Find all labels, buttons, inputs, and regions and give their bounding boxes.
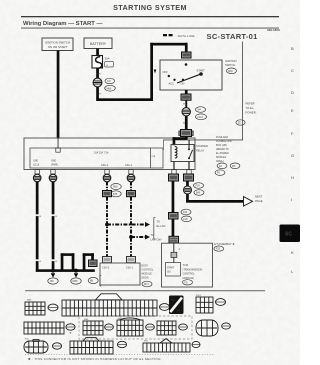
ground label G3 — [88, 277, 98, 283]
svg-text:B: B — [291, 46, 294, 51]
wire label B gaps upper — [35, 214, 39, 216]
arrow next page — [244, 197, 253, 207]
pin connector inside — [171, 252, 177, 257]
svg-text:I: I — [291, 197, 292, 202]
pin box c3g-1 — [129, 170, 133, 174]
ignition switch on-or-start box — [42, 38, 73, 51]
connector label F101 — [196, 114, 207, 120]
wire bump 1 top — [61, 253, 75, 256]
ground label G1 — [48, 278, 58, 284]
svg-text:C: C — [291, 68, 294, 73]
switch lever — [177, 74, 201, 83]
connector label E5 — [236, 120, 245, 125]
svg-text:✱ : THIS CONNECTOR IS NOT SHOW: ✱ : THIS CONNECTOR IS NOT SHOWN IN HARNE… — [28, 357, 162, 361]
svg-text:F25: F25 — [184, 218, 189, 221]
connector label M30 — [227, 68, 237, 74]
terminal c3g-1 — [127, 174, 135, 182]
svg-text:SWITCH: SWITCH — [225, 63, 235, 67]
wire fuse to terminal — [96, 68, 99, 79]
label fuse ref — [105, 62, 114, 68]
connector at ignition switch — [182, 52, 192, 58]
wire bump 1 left leg — [61, 253, 64, 271]
svg-text:(REFER TO: (REFER TO — [216, 148, 229, 151]
connector below switch — [181, 94, 191, 100]
fuse 30A — [92, 56, 103, 69]
svg-text:G: G — [291, 153, 294, 158]
svg-text:(TRANSMISSION: (TRANSMISSION — [183, 268, 203, 271]
data connector 1 — [103, 191, 112, 197]
starter relay box — [171, 145, 194, 162]
terminal gnd clu — [33, 174, 41, 182]
connector face F1 round — [196, 320, 218, 336]
wire inside tcm — [173, 243, 174, 262]
junction dot data 2 — [129, 235, 133, 239]
data line 1 — [106, 197, 108, 257]
data connector 2 — [127, 191, 136, 197]
connector label M5 — [230, 163, 240, 169]
relay coil — [175, 147, 177, 159]
svg-text:F62: F62 — [183, 211, 188, 214]
wire ignition feed — [57, 51, 60, 139]
wire ground bus bottom — [36, 269, 95, 272]
wire to fuse block — [185, 116, 188, 139]
pin box relay right — [187, 170, 191, 174]
svg-text:ACC: ACC — [169, 82, 175, 86]
data line 1 upper — [106, 182, 108, 191]
connector face F2 oval — [24, 340, 48, 353]
svg-text:D: D — [291, 90, 294, 95]
svg-text:F55: F55 — [216, 248, 221, 251]
wire jog to relay coil — [173, 137, 188, 140]
svg-text:CONTROL: CONTROL — [183, 273, 196, 276]
junction dot — [51, 269, 55, 273]
svg-text:BATTERY: BATTERY — [90, 42, 107, 46]
wire battery to fuse — [96, 49, 99, 57]
svg-text:FUSE AND: FUSE AND — [216, 136, 228, 139]
bracket refer to EL-POWER — [241, 42, 244, 141]
svg-text:SC-START-01: SC-START-01 — [207, 32, 259, 41]
connector face M5 — [83, 321, 103, 335]
wire relay to tcm — [172, 181, 175, 237]
wire top run to ignition switch — [150, 43, 187, 46]
svg-text:B40: B40 — [196, 192, 201, 195]
fuse block inner box — [30, 148, 163, 168]
wire drop into ignition connector — [185, 43, 188, 52]
svg-text:GND: GND — [51, 161, 56, 163]
connector ref E2 — [160, 304, 170, 311]
dashed group box — [79, 316, 192, 339]
terminal gnd pwr — [49, 174, 57, 182]
data branch 1 — [107, 224, 145, 226]
connector label F25 — [182, 216, 192, 222]
connector label F55 — [214, 246, 224, 251]
svg-text:C3G-1: C3G-1 — [125, 164, 133, 167]
svg-text:IGNITION SWITCH: IGNITION SWITCH — [45, 40, 70, 44]
connector mid tcm wire — [169, 213, 179, 220]
svg-text:TO: TO — [151, 234, 154, 237]
svg-text:EL-LAN: EL-LAN — [157, 225, 166, 228]
pin box gnd pwr — [51, 170, 55, 174]
connector label F7 — [183, 280, 193, 285]
svg-text:TO EL-: TO EL- — [246, 106, 255, 110]
svg-text:STARTING SYSTEM: STARTING SYSTEM — [113, 3, 187, 12]
svg-text:E: E — [291, 108, 294, 113]
fuse block outer box — [24, 138, 195, 170]
svg-text:POWER.: POWER. — [246, 111, 257, 115]
svg-text:F101: F101 — [198, 116, 204, 119]
svg-text:10A 20A 7.5A: 10A 20A 7.5A — [94, 152, 109, 155]
svg-text:TCM: TCM — [183, 264, 188, 267]
svg-text:: DATA LINE: : DATA LINE — [176, 34, 195, 38]
svg-text:BOX (J/B): BOX (J/B) — [216, 144, 227, 147]
svg-text:MODULE: MODULE — [142, 273, 153, 276]
svg-text:F24: F24 — [196, 185, 201, 188]
connector face M3 — [196, 297, 213, 313]
svg-text:FUSIBLE LINK: FUSIBLE LINK — [216, 140, 232, 143]
svg-text:MODULE: MODULE — [216, 156, 227, 159]
bracket cap — [96, 294, 123, 300]
brace — [153, 218, 155, 240]
wire horizontal battery run — [96, 98, 153, 101]
svg-text:M71: M71 — [144, 283, 149, 286]
svg-text:A/T ASSEMBLY ✱: A/T ASSEMBLY ✱ — [214, 242, 235, 246]
connector face M1 — [25, 302, 45, 315]
svg-text:(PWR): (PWR) — [51, 165, 58, 167]
connector face M8 — [70, 338, 113, 354]
tcm entry connector — [169, 236, 179, 243]
wire bump 2 right leg — [91, 253, 94, 260]
terminal c3g-3 — [103, 174, 111, 182]
svg-text:B75: B75 — [113, 193, 118, 196]
svg-text:30A: 30A — [105, 57, 110, 61]
smj connector 2 — [127, 257, 136, 263]
svg-text:K: K — [291, 250, 294, 255]
wire relay to next page — [186, 181, 189, 202]
svg-text:H: H — [291, 175, 294, 180]
connector label F6 — [215, 170, 225, 176]
wire direction mark — [154, 70, 157, 74]
connector label M66 — [105, 85, 116, 91]
connector ref E3 — [216, 299, 226, 306]
wire ground 1 — [36, 182, 39, 272]
connector face M2 long — [62, 300, 157, 316]
wire label B gaps — [35, 259, 39, 261]
legend data line — [163, 34, 167, 36]
ignition switch box — [160, 60, 222, 90]
separator line — [25, 289, 265, 292]
data line 2 — [130, 197, 132, 257]
terminal joint relay — [184, 186, 192, 194]
svg-text:EL-POWER: EL-POWER — [216, 152, 229, 155]
svg-text:(CLU): (CLU) — [33, 165, 39, 167]
svg-text:C/2: C/2 — [107, 80, 111, 83]
bracket — [100, 276, 102, 287]
svg-text:TS: TS — [171, 298, 175, 302]
ground arrow 2 — [74, 273, 79, 277]
wire terminal down — [96, 87, 99, 100]
pin box fuse feed — [56, 148, 60, 152]
svg-text:SIG: SIG — [167, 271, 171, 273]
connector ref E1 — [48, 304, 58, 311]
svg-text:STARTER: STARTER — [196, 144, 208, 148]
relay contact — [188, 145, 190, 149]
svg-text:ON: ON — [181, 82, 185, 86]
smj connector 1 — [103, 257, 112, 263]
svg-text:ON OR START: ON OR START — [48, 45, 68, 49]
connector label F24 — [194, 183, 204, 189]
svg-text:M9: M9 — [50, 280, 54, 283]
pin box c3g-3 — [105, 170, 109, 174]
svg-text:OFF: OFF — [163, 70, 169, 74]
wire color label 1 — [111, 184, 121, 190]
svg-text:C3G-3: C3G-3 — [102, 267, 110, 270]
connector label E2 — [217, 163, 227, 169]
junction dot data 1 — [105, 223, 109, 227]
ground connector 3 — [89, 260, 98, 267]
data branch 2 — [131, 236, 145, 238]
svg-text:SC: SC — [285, 232, 292, 238]
connector face T1 strip — [143, 339, 190, 352]
switch contact dots — [185, 63, 188, 66]
ground arrow 1 — [51, 273, 56, 277]
connector ref E10 — [117, 341, 126, 347]
ground label G2 — [71, 278, 81, 284]
compartment divider — [149, 148, 152, 168]
connector label M71 — [142, 281, 152, 287]
relay output connector right — [184, 174, 194, 181]
svg-text:NEXT: NEXT — [255, 195, 263, 199]
wire inside to fuses — [57, 138, 60, 148]
connector F — [179, 131, 182, 136]
svg-text:CONTROL: CONTROL — [142, 269, 154, 272]
wire ignition switch output — [185, 90, 188, 95]
dotted rule — [25, 354, 215, 356]
svg-text:START: START — [167, 266, 175, 269]
relay output connector left — [169, 174, 179, 181]
wire — [185, 100, 187, 108]
svg-text:C/B: C/B — [152, 156, 156, 158]
section tab SC — [280, 225, 301, 243]
wire color label 2 — [111, 191, 121, 197]
wire bump 2 top — [83, 253, 94, 256]
connector face M7 — [157, 321, 176, 335]
svg-text:C3G-3: C3G-3 — [101, 164, 109, 167]
connector ref E7 — [179, 324, 188, 330]
body control module box — [100, 263, 140, 285]
terminal battery junction — [93, 78, 102, 87]
connector ref E6 — [146, 324, 155, 330]
wire bump 1 right leg — [72, 253, 75, 271]
connector face M6 — [117, 318, 143, 336]
svg-text:M68: M68 — [73, 280, 78, 283]
wire next page run — [186, 200, 243, 203]
connector label C/2 — [105, 78, 115, 83]
connector ref E11 — [192, 341, 200, 347]
svg-text:M30: M30 — [228, 70, 233, 73]
tcm box — [162, 243, 213, 287]
pin box relay left — [172, 170, 176, 174]
data line 2 upper — [130, 182, 132, 191]
connector ref E9 — [52, 343, 61, 349]
battery box — [84, 38, 112, 49]
svg-text:LAN-CAN: LAN-CAN — [151, 239, 162, 242]
connector ref E4 — [66, 324, 75, 330]
connector face M4 — [24, 322, 64, 334]
terminal joint ignition — [182, 108, 190, 116]
svg-text:REFER: REFER — [246, 102, 255, 106]
connector label F62 — [181, 209, 191, 215]
header rule bottom — [21, 27, 279, 30]
svg-text:W/R: W/R — [97, 74, 102, 76]
svg-text:GND: GND — [33, 161, 38, 163]
svg-text:M66: M66 — [107, 87, 112, 90]
connector label B40 — [194, 190, 204, 196]
start signal box — [166, 263, 181, 277]
svg-text:Wiring Diagram — START —: Wiring Diagram — START — — [23, 21, 102, 27]
svg-text:AEL180A: AEL180A — [267, 28, 281, 32]
svg-text:BODY: BODY — [142, 265, 149, 268]
svg-text:AREA.): AREA.) — [216, 160, 224, 163]
relay output stubs — [173, 162, 174, 170]
connector label M4 — [196, 107, 206, 113]
connector face black B1 — [169, 296, 184, 315]
svg-text:RELAY: RELAY — [196, 148, 205, 152]
connector ref E8 — [222, 323, 231, 329]
svg-text:IGNITION: IGNITION — [225, 59, 237, 63]
svg-text:(BCM): (BCM) — [142, 277, 149, 280]
svg-text:C3G-1: C3G-1 — [126, 267, 134, 270]
wire ground 2 — [52, 182, 55, 272]
svg-text:F101: F101 — [196, 295, 202, 297]
svg-text:START: START — [197, 69, 206, 73]
pin box gnd clu — [35, 170, 39, 174]
connector ref E5 — [105, 324, 114, 330]
junction dot — [74, 269, 78, 273]
wire bump 2 left leg — [83, 253, 86, 271]
header rule top — [21, 16, 279, 17]
svg-text:A4: A4 — [177, 309, 181, 313]
svg-text:M65: M65 — [113, 186, 118, 189]
wire riser to ignition — [150, 43, 153, 101]
svg-text:TO: TO — [157, 221, 160, 224]
svg-text:PAGE: PAGE — [255, 199, 263, 203]
wire contact feed — [189, 140, 190, 145]
